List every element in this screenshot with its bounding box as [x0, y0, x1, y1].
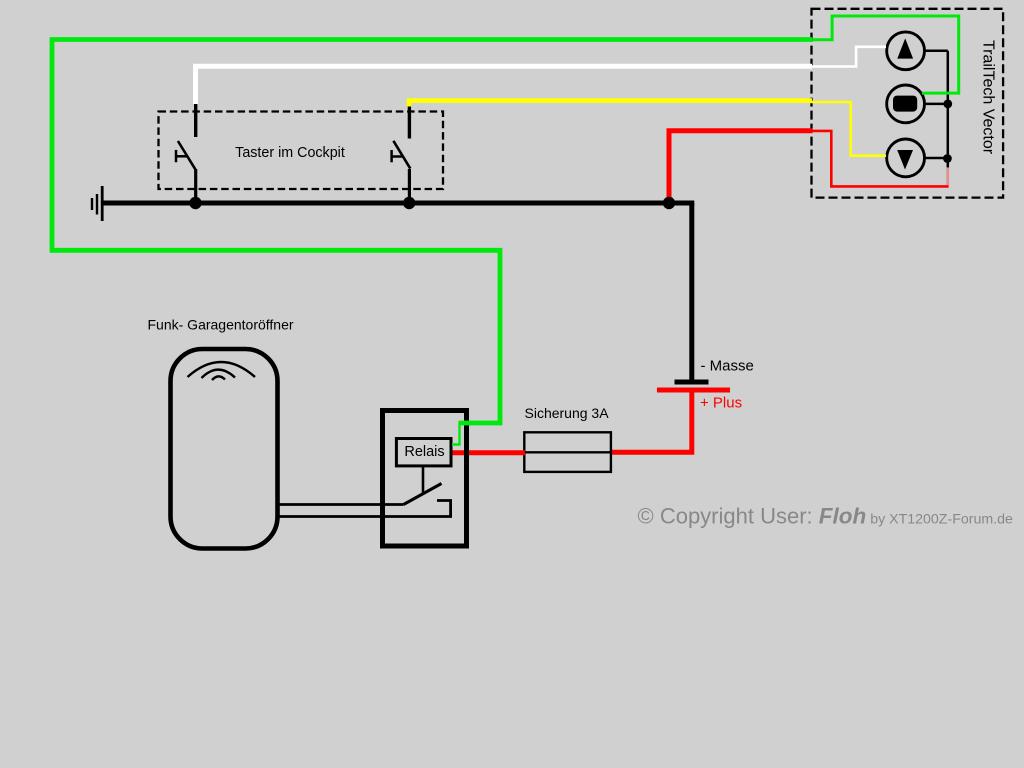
svg-text:Funk- Garagentoröffner: Funk- Garagentoröffner	[148, 317, 294, 333]
svg-text:TrailTech Vector: TrailTech Vector	[980, 40, 997, 155]
svg-text:- Masse: - Masse	[701, 358, 754, 375]
svg-text:Relais: Relais	[404, 444, 444, 460]
svg-text:Taster im Cockpit: Taster im Cockpit	[235, 145, 345, 161]
svg-text:+ Plus: + Plus	[700, 395, 742, 412]
svg-text:Sicherung 3A: Sicherung 3A	[525, 405, 610, 421]
